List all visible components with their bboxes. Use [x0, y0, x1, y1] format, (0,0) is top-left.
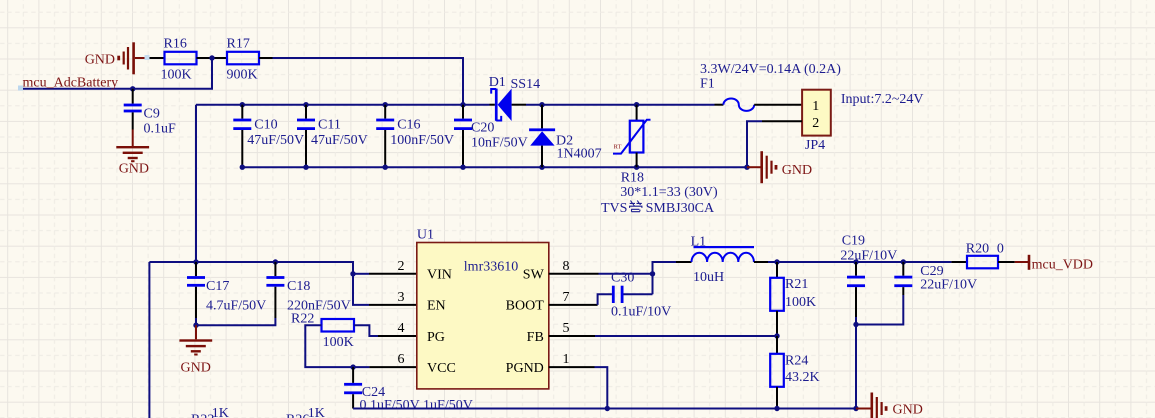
svg-text:L1: L1	[691, 234, 707, 249]
svg-text:SS14: SS14	[511, 77, 541, 92]
node	[460, 165, 465, 170]
wire far-left vertical	[148, 262, 150, 418]
wire	[149, 261, 196, 263]
node	[460, 102, 465, 107]
wire left vertical	[195, 105, 197, 262]
wire BOOT pin	[549, 304, 598, 306]
resistor R24	[770, 336, 819, 409]
wire	[747, 121, 762, 167]
node	[383, 102, 388, 107]
svg-text:C30: C30	[611, 270, 634, 285]
node	[539, 165, 544, 170]
svg-text:mcu_VDD: mcu_VDD	[1032, 257, 1093, 272]
svg-text:5: 5	[563, 321, 570, 336]
svg-text:1: 1	[563, 352, 570, 367]
svg-text:2: 2	[398, 259, 405, 274]
svg-text:C19: C19	[842, 233, 865, 248]
svg-text:10uH: 10uH	[693, 270, 724, 285]
svg-text:0: 0	[997, 242, 1004, 257]
capacitor C11	[297, 105, 368, 168]
wire	[197, 57, 228, 59]
wire R22 right to PG	[354, 325, 378, 336]
svg-text:R24: R24	[785, 354, 808, 369]
svg-text:R18: R18	[621, 170, 644, 185]
partial resistor labels bottom	[191, 406, 325, 418]
svg-text:JP4: JP4	[805, 138, 825, 153]
wire SW pin	[549, 273, 599, 275]
node	[901, 259, 906, 264]
capacitor C30	[611, 270, 671, 319]
svg-text:R23: R23	[191, 413, 214, 418]
connector JP4	[802, 90, 923, 153]
svg-text:30*1.1=33 (30V): 30*1.1=33 (30V)	[620, 185, 718, 200]
wire bottom bank bus	[242, 166, 747, 168]
svg-text:8: 8	[563, 259, 570, 274]
svg-text:22uF/10V: 22uF/10V	[840, 249, 897, 264]
resistor R17	[227, 37, 260, 83]
node	[853, 322, 858, 327]
node	[383, 165, 388, 170]
wire PGND pin	[549, 366, 595, 368]
svg-text:6: 6	[398, 352, 405, 367]
svg-text:1N4007: 1N4007	[557, 146, 602, 161]
wire	[273, 58, 464, 105]
capacitor C16	[376, 105, 454, 168]
svg-text:GND: GND	[181, 361, 211, 376]
svg-text:SW: SW	[523, 268, 545, 283]
node	[303, 102, 308, 107]
svg-text:R21: R21	[785, 277, 808, 292]
node	[350, 271, 355, 276]
capacitor C18	[196, 262, 351, 325]
wire output rail	[768, 261, 951, 263]
svg-text:lmr33610: lmr33610	[464, 260, 518, 275]
svg-text:47uF/50V: 47uF/50V	[247, 133, 304, 148]
svg-text:22uF/10V: 22uF/10V	[920, 277, 977, 292]
power port GND right of bus	[747, 151, 812, 183]
svg-text:C20: C20	[471, 121, 494, 136]
resistor R16	[161, 37, 197, 83]
svg-text:0.1uF: 0.1uF	[144, 121, 177, 136]
svg-text:SMBJ30CA: SMBJ30CA	[646, 201, 715, 216]
node	[634, 165, 639, 170]
svg-text:4: 4	[398, 321, 405, 336]
node	[774, 259, 779, 264]
svg-text:R17: R17	[227, 37, 250, 52]
svg-text:VIN: VIN	[427, 268, 452, 283]
node R16/R17 junction	[209, 55, 214, 60]
wire input rail to U1	[196, 262, 369, 305]
svg-text:900K: 900K	[227, 68, 258, 83]
svg-text:RT: RT	[614, 144, 622, 151]
grip mark	[145, 55, 150, 60]
IC U1 lmr33610	[398, 228, 570, 389]
node	[350, 364, 355, 369]
node C9 junction	[130, 86, 135, 91]
svg-text:TVS: TVS	[601, 201, 627, 216]
node	[605, 406, 610, 411]
svg-text:BOOT: BOOT	[506, 299, 545, 314]
svg-text:VCC: VCC	[427, 361, 456, 376]
node	[193, 259, 198, 264]
svg-text:1: 1	[812, 99, 819, 114]
wire	[526, 104, 715, 106]
ground GND under C17	[179, 325, 212, 375]
svg-text:47uF/50V: 47uF/50V	[311, 133, 368, 148]
svg-text:3: 3	[398, 290, 405, 305]
svg-text:100K: 100K	[785, 295, 816, 310]
svg-text:GND: GND	[782, 163, 812, 178]
svg-text:100nF/50V: 100nF/50V	[390, 133, 454, 148]
capacitor C19	[840, 233, 897, 408]
svg-text:100K: 100K	[323, 335, 354, 350]
svg-text:mcu_AdcBattery: mcu_AdcBattery	[23, 76, 119, 91]
node	[650, 271, 655, 276]
svg-text:GND: GND	[893, 403, 923, 418]
node	[303, 165, 308, 170]
fuse F1	[700, 62, 841, 111]
svg-text:Input:7.2~24V: Input:7.2~24V	[841, 92, 924, 107]
capacitor C20	[454, 105, 528, 168]
wire	[595, 335, 777, 337]
wire bottom bus	[353, 408, 856, 410]
capacitor C17	[187, 262, 266, 325]
node	[240, 102, 245, 107]
capacitor C9	[124, 89, 176, 137]
node	[853, 406, 858, 411]
svg-text:1K: 1K	[308, 406, 325, 418]
node	[240, 165, 245, 170]
wire FB pin	[549, 335, 595, 337]
wire R22 left to VCC rail	[305, 325, 369, 367]
resistor R21	[770, 262, 816, 336]
svg-text:U1: U1	[417, 228, 434, 243]
wire	[259, 57, 273, 59]
node	[634, 102, 639, 107]
capacitor C24	[344, 367, 473, 413]
diode D2 1N4007	[529, 105, 602, 168]
node	[774, 333, 779, 338]
svg-text:C18: C18	[287, 279, 310, 294]
capacitor C10	[233, 105, 304, 168]
svg-text:43.2K: 43.2K	[785, 370, 820, 385]
node	[193, 323, 198, 328]
svg-text:0.1uF/50V 1uF/50V: 0.1uF/50V 1uF/50V	[360, 398, 473, 413]
svg-text:0.1uF/10V: 0.1uF/10V	[611, 304, 671, 319]
wire VIN pin	[353, 273, 369, 275]
ground GND under C9	[116, 130, 149, 177]
svg-text:2: 2	[812, 116, 819, 131]
wire C29 bottom link	[856, 295, 903, 325]
svg-text:R16: R16	[164, 37, 187, 52]
svg-text:C17: C17	[206, 279, 229, 294]
wire	[150, 57, 165, 59]
svg-text:C16: C16	[397, 118, 420, 133]
svg-text:F1: F1	[700, 76, 715, 91]
svg-text:100K: 100K	[161, 68, 192, 83]
svg-text:GND: GND	[85, 52, 115, 67]
node	[744, 165, 749, 170]
svg-text:C9: C9	[144, 106, 160, 121]
svg-text:3.3W/24V=0.14A (0.2A): 3.3W/24V=0.14A (0.2A)	[700, 62, 841, 77]
power port GND bottom right	[856, 393, 923, 418]
wire	[595, 367, 608, 408]
svg-text:C10: C10	[254, 118, 277, 133]
power port GND top-left	[85, 42, 150, 74]
svg-text:D1: D1	[489, 75, 506, 90]
diode D1 SS14	[489, 75, 540, 121]
node	[774, 406, 779, 411]
grip mark	[18, 86, 23, 91]
wire EN pin	[369, 304, 417, 306]
svg-text:4.7uF/50V: 4.7uF/50V	[206, 299, 266, 314]
svg-text:EN: EN	[427, 299, 446, 314]
node	[273, 259, 278, 264]
wire	[490, 104, 495, 106]
svg-text:PG: PG	[427, 330, 445, 345]
varistor R18	[601, 105, 718, 216]
node	[539, 102, 544, 107]
node	[853, 259, 858, 264]
resistor R22	[291, 312, 354, 350]
svg-text:C11: C11	[318, 118, 341, 133]
svg-text:R20: R20	[966, 242, 989, 257]
wire main input bus	[196, 104, 490, 106]
wire	[512, 104, 526, 106]
capacitor C29	[894, 262, 977, 295]
svg-text:10nF/50V: 10nF/50V	[471, 136, 528, 151]
net label mcu_VDD	[1015, 255, 1093, 272]
wire VCC pin	[369, 366, 416, 368]
wire	[599, 273, 653, 275]
inductor L1	[676, 234, 768, 284]
wire	[598, 294, 612, 305]
wire PG pin	[378, 335, 417, 337]
svg-text:7: 7	[563, 290, 570, 305]
svg-text:PGND: PGND	[506, 361, 544, 376]
svg-text:FB: FB	[527, 330, 544, 345]
wire JP4 pin2	[762, 120, 802, 122]
svg-text:GND: GND	[119, 162, 149, 177]
wire SW up to rail	[653, 262, 677, 294]
svg-text:R26: R26	[286, 413, 309, 418]
wire	[21, 58, 212, 89]
resistor R20	[951, 242, 1014, 269]
